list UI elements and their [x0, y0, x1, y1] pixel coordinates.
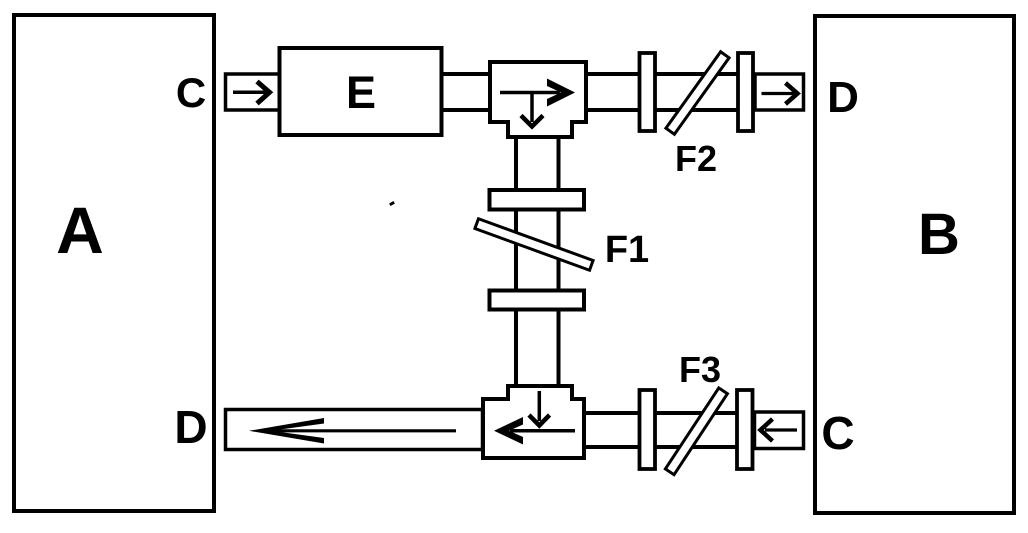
wire: long tube combiner to box A (port D): [226, 410, 483, 450]
wire: tube splitter to plate P1: [586, 74, 640, 110]
wire: tube box B (port C) to plate P4: [755, 412, 804, 449]
plate P4 (right of F3): [737, 390, 753, 469]
wire: top beam tube C to E: [226, 74, 280, 110]
svg-text:D: D: [174, 401, 207, 453]
arrow right in splitter: [500, 79, 575, 107]
box A: [14, 15, 214, 511]
filter F2 slanted: [666, 52, 729, 134]
filter F1 slanted: [475, 219, 593, 270]
box B: [815, 16, 1014, 513]
wire: tube E to splitter: [441, 74, 490, 110]
plate P1 (left of F2): [640, 53, 656, 131]
svg-text:F1: F1: [605, 229, 649, 271]
svg-text:E: E: [346, 67, 376, 118]
svg-text:A: A: [56, 193, 104, 267]
plate P2 (right of F2): [738, 53, 753, 131]
arrow right into B: [762, 83, 798, 104]
wire: vertical tube between H plates: [516, 210, 559, 291]
combiner block U2: [483, 386, 584, 458]
svg-text:F3: F3: [679, 349, 721, 390]
plate P3 (left of F3): [640, 390, 656, 469]
box E: [280, 48, 442, 135]
svg-text:C: C: [821, 407, 854, 459]
plate H1 (above F1): [490, 190, 585, 210]
svg-text:B: B: [918, 202, 960, 267]
arrow down in splitter: [521, 93, 543, 127]
wire: tube between plates at F2: [655, 74, 738, 110]
wire: vertical tube H2 to combiner: [516, 310, 559, 387]
arrow left in combiner: [494, 417, 575, 445]
splitter block U1: [490, 62, 586, 137]
wire: tube combiner to plate P3: [584, 413, 640, 447]
svg-text:C: C: [176, 69, 206, 116]
wire: tube plate P2 to box B (port D): [755, 74, 804, 110]
stray dot artifact: [389, 201, 395, 206]
long arrow left to D: [249, 418, 456, 444]
arrow left from C: [761, 419, 798, 441]
arrow down in combiner: [529, 391, 550, 426]
wire: tube between plates at F3: [655, 413, 738, 447]
filter F3 slanted: [665, 388, 727, 475]
svg-text:F2: F2: [675, 138, 717, 179]
arrow right in tube C->E: [233, 82, 270, 104]
wire: vertical tube splitter to plate H1: [516, 137, 559, 192]
svg-text:D: D: [827, 73, 859, 122]
plate H2 (below F1): [490, 291, 585, 310]
